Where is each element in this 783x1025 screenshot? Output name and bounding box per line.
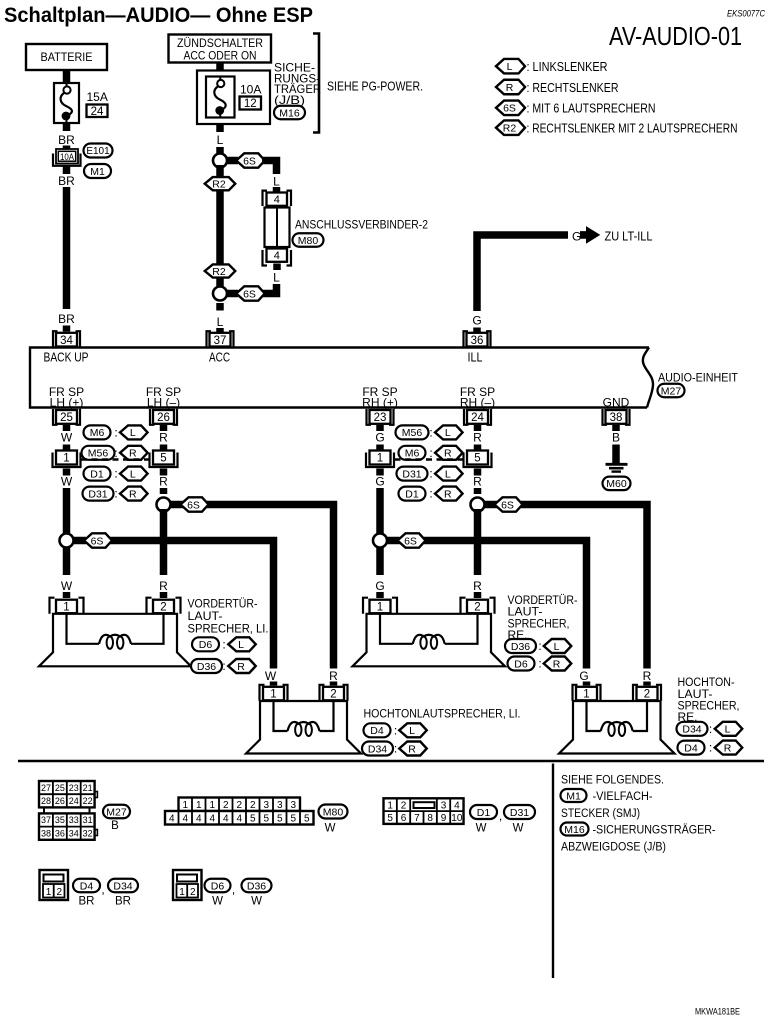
svg-text:M16: M16 <box>279 107 300 119</box>
svg-text:-SICHERUNGSTRÄGER-: -SICHERUNGSTRÄGER- <box>593 823 716 837</box>
svg-text:4: 4 <box>274 250 280 262</box>
page id AV-AUDIO-01 <box>609 23 742 51</box>
wire stub <box>583 682 591 686</box>
svg-text:3: 3 <box>290 800 296 811</box>
wire stub below fuse <box>63 123 71 131</box>
wire battery branch down <box>63 187 71 309</box>
svg-text::: : <box>114 426 117 440</box>
svg-text:SIEHE FOLGENDES.: SIEHE FOLGENDES. <box>561 773 664 787</box>
svg-text:L: L <box>238 639 244 651</box>
svg-text:3: 3 <box>263 800 269 811</box>
svg-text:ANSCHLUSSVERBINDER-2: ANSCHLUSSVERBINDER-2 <box>295 218 428 232</box>
svg-text:6S: 6S <box>404 535 417 547</box>
svg-text:6S: 6S <box>503 103 516 115</box>
connector ref D34 <box>677 722 708 736</box>
ground <box>606 464 628 471</box>
svg-text:ZU LT-ILL: ZU LT-ILL <box>605 230 653 244</box>
svg-text:28: 28 <box>41 796 51 806</box>
wire stub below pin 23 <box>376 425 384 431</box>
svg-text:21: 21 <box>83 783 93 793</box>
connector ref D36 <box>242 879 272 893</box>
pinout M27 link <box>44 807 90 813</box>
svg-text:LH (–): LH (–) <box>147 396 180 410</box>
svg-text:R: R <box>506 82 514 94</box>
speaker front left pin 1 <box>50 598 84 614</box>
svg-text:B: B <box>612 431 620 445</box>
svg-text:D31: D31 <box>510 807 529 819</box>
wire stub below pin 25 <box>63 425 71 431</box>
pinout D1 D31 slot <box>414 802 435 808</box>
fuse value 15A <box>87 90 108 104</box>
svg-text:22: 22 <box>83 796 93 806</box>
colon <box>222 659 225 673</box>
svg-text:1: 1 <box>377 602 383 614</box>
wire stub below joint connector <box>273 264 281 271</box>
svg-text:W: W <box>212 896 223 908</box>
svg-text:4: 4 <box>196 813 202 824</box>
svg-text:R2: R2 <box>212 266 226 278</box>
svg-text:25: 25 <box>55 783 65 793</box>
wire 6S branch left R <box>170 505 334 669</box>
svg-text:37: 37 <box>41 815 51 825</box>
svg-text:1: 1 <box>63 453 69 465</box>
option symbol 6S <box>84 533 112 547</box>
svg-text:5: 5 <box>250 813 256 824</box>
colon <box>538 657 541 671</box>
wire joint connector to 6S <box>262 284 277 294</box>
svg-text:G: G <box>375 431 384 445</box>
svg-text:W: W <box>61 475 73 489</box>
connector ref M56 <box>82 446 115 460</box>
wire B to ground <box>612 450 620 463</box>
svg-text:2: 2 <box>236 800 242 811</box>
svg-text:1: 1 <box>182 800 188 811</box>
wire label L <box>217 315 224 329</box>
legend text MIT 6 LAUTSPRECHERN <box>527 101 656 116</box>
junction node <box>213 287 227 301</box>
wire G down to junction <box>376 488 384 575</box>
pin 26 <box>150 409 177 425</box>
pinout M80 bottom row <box>165 811 314 825</box>
svg-text::: : <box>114 446 117 460</box>
svg-text:26: 26 <box>55 796 65 806</box>
svg-text:L: L <box>445 468 451 480</box>
svg-text:D31: D31 <box>88 488 107 500</box>
svg-text:4: 4 <box>169 813 175 824</box>
svg-text:M27: M27 <box>661 385 682 397</box>
connector ref M1 <box>84 164 111 178</box>
svg-text:27: 27 <box>41 783 51 793</box>
svg-text:4: 4 <box>454 800 460 811</box>
option symbol L <box>435 425 463 439</box>
svg-text::: : <box>222 659 225 673</box>
junction node <box>157 498 171 512</box>
svg-text:L: L <box>554 641 560 653</box>
svg-text:GND: GND <box>603 396 630 410</box>
connector ref M56 <box>396 425 429 439</box>
wire stub below pin 26 <box>160 425 168 431</box>
option symbol 6S <box>236 286 265 300</box>
pinout D4 D34 connector <box>40 870 69 900</box>
connector ref M16 <box>561 823 589 836</box>
svg-text:M16: M16 <box>564 824 585 836</box>
svg-text:4: 4 <box>274 194 280 206</box>
label ANSCHLUSSVERBINDER-2 <box>295 218 428 232</box>
svg-text:BR: BR <box>58 174 75 188</box>
option symbol R2 <box>205 177 236 190</box>
pin 24 <box>464 409 491 425</box>
wire stub <box>376 445 384 451</box>
pinout M80 top row <box>179 798 301 812</box>
pin 37 <box>207 331 234 347</box>
audio unit box <box>30 348 653 408</box>
connector ref D4 <box>364 723 391 737</box>
svg-text:R: R <box>444 488 452 500</box>
svg-text:ILL: ILL <box>468 351 483 365</box>
wire stub above pin 34 <box>63 326 71 332</box>
connector ref M16 <box>274 106 305 120</box>
arrow to LT-ILL <box>581 227 600 243</box>
inline connector 1 <box>53 451 81 468</box>
legend text RECHTSLENKER <box>527 80 619 95</box>
svg-text:24: 24 <box>69 796 79 806</box>
svg-text:R: R <box>473 475 482 489</box>
svg-text:BR: BR <box>58 133 75 147</box>
svg-text::: : <box>538 657 541 671</box>
option symbol L <box>228 637 256 651</box>
svg-text:ABZWEIGDOSE (J/B): ABZWEIGDOSE (J/B) <box>561 840 666 854</box>
wire stub into joint connector <box>273 187 281 193</box>
label ZU LT-ILL <box>605 230 653 244</box>
colon <box>429 467 432 481</box>
pin 36 <box>464 331 491 347</box>
svg-text:ACC: ACC <box>209 351 230 365</box>
svg-text:6S: 6S <box>501 499 514 511</box>
connector ref M27 <box>658 384 685 398</box>
svg-text:R: R <box>473 579 482 593</box>
wire stub <box>160 469 168 476</box>
svg-text:,: , <box>101 883 104 897</box>
connector ref D4 <box>678 741 705 755</box>
svg-text:2: 2 <box>223 800 229 811</box>
svg-text:W: W <box>476 823 487 835</box>
svg-text:M27: M27 <box>106 806 127 818</box>
pinout M27 lower grid <box>39 813 97 839</box>
wire label R <box>473 579 482 593</box>
wire 6S branch right G <box>387 541 587 669</box>
wire label R <box>159 431 168 445</box>
label VORDERTUER-LAUTSPRECHER RE <box>508 593 578 642</box>
svg-text:R: R <box>159 475 168 489</box>
svg-text:W: W <box>251 896 262 908</box>
wire stub <box>270 682 278 686</box>
colon <box>709 741 712 755</box>
option symbol R <box>715 741 743 755</box>
svg-text:E101: E101 <box>86 146 110 157</box>
wire stub <box>216 147 224 153</box>
svg-text:W: W <box>325 823 336 835</box>
svg-text:1: 1 <box>196 800 202 811</box>
svg-text:5: 5 <box>387 813 393 824</box>
svg-text:10: 10 <box>451 813 463 824</box>
dashed link 1 to 5 <box>395 458 464 460</box>
svg-text:AUDIO-EINHEIT: AUDIO-EINHEIT <box>658 371 738 385</box>
svg-text:R: R <box>553 658 561 670</box>
svg-text:ACC ODER ON: ACC ODER ON <box>184 49 257 63</box>
svg-text:3: 3 <box>277 800 283 811</box>
wire stub below pin 24 <box>474 425 482 431</box>
wire stub <box>643 682 651 686</box>
note VIELFACH <box>593 789 653 803</box>
svg-text:M80: M80 <box>298 235 319 247</box>
wire stub above speaker <box>376 592 384 598</box>
legend symbol 6S <box>496 101 525 116</box>
fuse F 15A <box>54 83 79 124</box>
svg-text:10A: 10A <box>240 83 261 97</box>
svg-text:BATTERIE: BATTERIE <box>41 50 93 64</box>
svg-text:34: 34 <box>69 828 79 838</box>
option symbol L <box>715 722 743 736</box>
wire stub <box>63 469 71 476</box>
wire label L <box>273 175 280 189</box>
svg-text:L: L <box>273 271 280 285</box>
connector ref M1 <box>561 789 587 802</box>
option symbol L <box>399 723 427 737</box>
legend text LINKSLENKER <box>527 59 608 74</box>
pin name BACK UP <box>44 351 89 365</box>
connector ref M6 <box>84 425 111 439</box>
wire label BR <box>58 174 75 188</box>
svg-text:5: 5 <box>263 813 269 824</box>
svg-text:24: 24 <box>471 412 484 424</box>
svg-text::: : <box>429 426 432 440</box>
svg-text:4: 4 <box>223 813 229 824</box>
svg-text:R: R <box>237 661 245 673</box>
option symbol R <box>228 659 256 673</box>
wire color W <box>325 823 336 835</box>
svg-text:AV-AUDIO-01: AV-AUDIO-01 <box>609 23 742 51</box>
connector ref D31 <box>504 805 535 819</box>
svg-text:D6: D6 <box>514 658 528 670</box>
connector ref D36 <box>505 639 536 653</box>
speaker front left coil <box>67 614 164 649</box>
connector ref D6 <box>508 657 535 671</box>
wire stub <box>474 469 482 476</box>
svg-text:L: L <box>217 133 224 147</box>
connector ref D1 <box>84 467 111 481</box>
speaker front right coil <box>380 614 478 649</box>
svg-text:33: 33 <box>69 815 79 825</box>
title text <box>4 3 313 27</box>
svg-text:5: 5 <box>277 813 283 824</box>
drawing code EKS0077C <box>727 9 765 20</box>
wire ILL up and right <box>477 235 568 311</box>
wire label L <box>273 271 280 285</box>
wire color BR <box>115 896 131 908</box>
tweeter right coil <box>587 701 648 736</box>
svg-text:1: 1 <box>179 887 185 898</box>
wire 6S to joint connector <box>262 161 277 175</box>
colon <box>114 426 117 440</box>
note SIEHE PG-POWER <box>327 80 423 94</box>
wire stub above speaker <box>160 592 168 598</box>
svg-text:D6: D6 <box>199 639 213 651</box>
wire color W <box>251 896 262 908</box>
wire stub into 10A link <box>63 146 71 151</box>
connector ref E101 <box>84 144 113 158</box>
connector ref D4 <box>73 879 100 893</box>
wire label W <box>61 431 73 445</box>
connector ref M6 <box>399 446 426 460</box>
svg-text:D36: D36 <box>511 641 530 653</box>
svg-text:G: G <box>572 230 581 244</box>
option symbol R <box>399 742 427 756</box>
option symbol R <box>544 657 572 671</box>
svg-text:2: 2 <box>401 800 407 811</box>
svg-text:W: W <box>61 431 73 445</box>
svg-text:HOCHTONLAUTSPRECHER, LI.: HOCHTONLAUTSPRECHER, LI. <box>364 707 521 721</box>
junction node <box>471 498 485 512</box>
pin name ACC <box>209 351 230 365</box>
wire stub <box>160 445 168 451</box>
svg-text:R: R <box>159 579 168 593</box>
svg-text:SIEHE PG-POWER.: SIEHE PG-POWER. <box>327 80 423 94</box>
svg-text::: : <box>114 467 117 481</box>
wire color W <box>212 896 223 908</box>
svg-text:-VIELFACH-: -VIELFACH- <box>593 789 653 803</box>
svg-text:32: 32 <box>83 828 93 838</box>
svg-text:RH (+): RH (+) <box>362 396 398 410</box>
wire 6S branch left W <box>73 541 274 669</box>
wire label W <box>61 579 73 593</box>
wire 6S branch right R <box>484 505 647 669</box>
wire battery to fuse <box>63 70 71 84</box>
svg-text:D1: D1 <box>405 488 419 500</box>
svg-text:L: L <box>409 725 415 737</box>
comma <box>232 883 235 897</box>
pin label FR SP RH (+) <box>362 385 398 410</box>
svg-text:R: R <box>129 488 137 500</box>
wire stub below J/B <box>216 124 224 132</box>
svg-text:L: L <box>130 427 136 439</box>
pin label FR SP LH (-) <box>146 385 181 410</box>
svg-text:2: 2 <box>644 689 650 701</box>
svg-text:D36: D36 <box>247 880 266 892</box>
wire W down to junction <box>63 488 71 575</box>
svg-text:R: R <box>444 448 452 460</box>
pin 34 <box>53 331 80 347</box>
comma <box>101 883 104 897</box>
svg-text:36: 36 <box>471 335 484 347</box>
option symbol L <box>544 639 572 653</box>
tweeter right pin 1 <box>573 685 601 701</box>
speaker front right body <box>353 614 506 667</box>
colon <box>222 637 225 651</box>
svg-text:2: 2 <box>57 887 63 898</box>
svg-text:12: 12 <box>244 98 257 110</box>
svg-text:D1: D1 <box>90 468 104 480</box>
wire label R <box>159 475 168 489</box>
label SICHERUNGSTRAEGER <box>274 61 321 107</box>
svg-text:D4: D4 <box>80 880 94 892</box>
svg-text:R: R <box>159 431 168 445</box>
svg-text:L: L <box>217 315 224 329</box>
svg-text:10A: 10A <box>60 152 74 162</box>
svg-text:BACK UP: BACK UP <box>44 351 89 365</box>
svg-text:38: 38 <box>610 412 623 424</box>
wire label G <box>375 431 384 445</box>
svg-text:Schaltplan—AUDIO— Ohne ESP: Schaltplan—AUDIO— Ohne ESP <box>4 3 313 27</box>
colon <box>429 487 432 501</box>
wire R down to speaker <box>160 509 168 575</box>
colon <box>709 722 712 736</box>
svg-text:R: R <box>329 669 338 683</box>
svg-text:: RECHTSLENKER MIT 2 LAUTSPREC: : RECHTSLENKER MIT 2 LAUTSPRECHERN <box>527 121 738 136</box>
pin name ILL <box>468 351 483 365</box>
svg-text:: RECHTSLENKER: : RECHTSLENKER <box>527 80 619 95</box>
svg-text::: : <box>709 741 712 755</box>
wire label R <box>159 579 168 593</box>
svg-text:37: 37 <box>214 335 227 347</box>
svg-text:9: 9 <box>441 813 447 824</box>
colon <box>114 467 117 481</box>
speaker front right pin 1 <box>363 598 397 614</box>
tweeter right pin 2 <box>633 685 661 701</box>
connector ref D34 <box>362 742 393 756</box>
colon <box>429 446 432 460</box>
comma <box>499 809 502 823</box>
legend symbol R <box>496 80 525 95</box>
pinout M27 upper grid <box>39 781 97 807</box>
svg-text:: LINKSLENKER: : LINKSLENKER <box>527 59 608 74</box>
wire color BR <box>79 896 95 908</box>
option symbol 6S <box>398 533 426 547</box>
bracket <box>313 34 319 133</box>
option symbol L <box>120 467 148 481</box>
svg-text:23: 23 <box>69 783 79 793</box>
svg-text:23: 23 <box>374 412 387 424</box>
fuse number 24 <box>87 105 108 118</box>
svg-text:M1: M1 <box>566 790 581 802</box>
svg-text::: : <box>394 742 397 756</box>
svg-text::: : <box>429 467 432 481</box>
wire label BR <box>58 312 75 326</box>
svg-text:,: , <box>499 809 502 823</box>
option symbol R <box>120 487 148 501</box>
svg-text:EKS0077C: EKS0077C <box>727 9 765 20</box>
label AUDIO-EINHEIT <box>658 371 738 385</box>
svg-text::: : <box>114 487 117 501</box>
svg-text:RH (–): RH (–) <box>460 396 495 410</box>
wire label R <box>473 475 482 489</box>
wire stub <box>160 488 168 494</box>
svg-text::: : <box>709 722 712 736</box>
inline connector 5 <box>150 451 178 468</box>
wire label G <box>572 230 581 244</box>
tweeter left pin 1 <box>260 685 288 701</box>
wire ignition main down <box>216 165 224 289</box>
divider line <box>552 764 554 979</box>
connector ref D6 <box>205 879 231 893</box>
svg-text:M80: M80 <box>323 806 344 818</box>
svg-text:6S: 6S <box>243 155 256 167</box>
svg-text:2: 2 <box>474 602 480 614</box>
option symbol R <box>120 446 148 460</box>
label HOCHTONLAUTSPRECHER LI <box>364 707 521 721</box>
svg-text:24: 24 <box>91 106 104 118</box>
svg-text:7: 7 <box>414 813 420 824</box>
inline connector 1 <box>366 451 394 468</box>
